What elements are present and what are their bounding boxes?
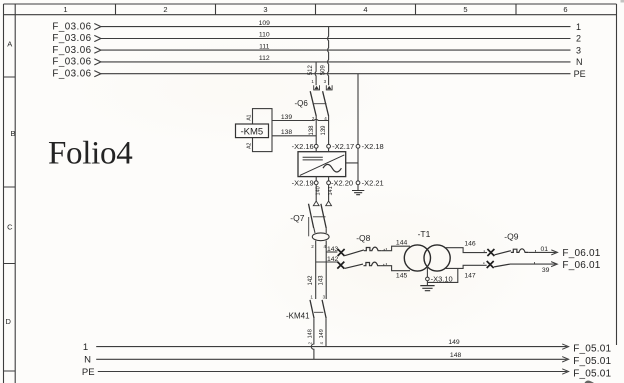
svg-text:148: 148 — [307, 329, 313, 338]
arrow to F_05.01 line PE — [562, 369, 568, 374]
wire 143 horizontal — [326, 251, 337, 253]
wire stub box to X2.20 — [328, 177, 330, 181]
svg-text:3: 3 — [263, 5, 267, 14]
frame ruler row bottom line — [4, 14, 617, 16]
arrow to F_05.01 line N — [562, 357, 568, 362]
svg-text:A: A — [7, 40, 12, 49]
svg-text:F_05.01: F_05.01 — [573, 356, 611, 367]
ground symbol under X2.21 — [352, 191, 364, 195]
svg-text:F_05.01: F_05.01 — [573, 368, 611, 379]
trip unit ellipse Q7 — [312, 233, 329, 241]
thermal element Q8 pole 2 — [364, 262, 381, 266]
terminal X2.21 — [356, 181, 360, 185]
terminal X2.20 — [327, 181, 331, 185]
wire 01 Q9 to arrow — [528, 251, 556, 253]
arrow to F_05.01 line 1 — [562, 344, 568, 349]
breaker contact cross Q8 pole1 — [338, 249, 345, 256]
svg-text:-X2.19: -X2.19 — [292, 178, 314, 187]
pin 1 T1 — [385, 248, 387, 250]
svg-text:C: C — [7, 223, 13, 232]
svg-text:-Q9: -Q9 — [504, 231, 518, 241]
wire X3.10 to ground — [426, 281, 428, 286]
svg-text:2: 2 — [576, 34, 581, 44]
svg-text:6: 6 — [563, 5, 567, 14]
svg-text:509: 509 — [320, 65, 326, 76]
terminal X2.17 — [327, 144, 331, 148]
pin tick Q8 pole2 right — [383, 264, 385, 266]
frame letter column line — [14, 4, 16, 383]
svg-text:149: 149 — [448, 339, 460, 346]
svg-text:01: 01 — [541, 246, 549, 253]
wire X2.21 stub — [357, 163, 359, 181]
svg-text:N: N — [576, 57, 583, 67]
wire 138 horizontal KM5 A2 to Q6 pole1 — [272, 135, 316, 137]
svg-text:143: 143 — [319, 275, 325, 286]
pin 2 Q9 — [534, 262, 536, 264]
wire PE drop to X2.18 — [357, 74, 359, 145]
pin tick Q9 pole1 left — [483, 250, 485, 252]
wire 148 below KM41 — [311, 318, 314, 359]
pin 2 T1 — [385, 263, 387, 265]
node label 1 right — [574, 22, 586, 79]
svg-text:139: 139 — [281, 114, 293, 121]
wire number 109 — [259, 20, 271, 62]
svg-text:141: 141 — [328, 186, 334, 195]
breaker Q6 blade pole 2 — [323, 91, 329, 116]
thermal element Q9 — [511, 249, 528, 253]
svg-text:140: 140 — [316, 186, 322, 195]
svg-text:1: 1 — [63, 5, 67, 14]
wire Q7 pole2 to trip ellipse — [325, 228, 327, 233]
ground symbol under X3.10 — [420, 286, 434, 291]
wire 147 tap to X3.10 — [427, 268, 457, 282]
svg-text:142: 142 — [327, 256, 339, 263]
wire 39 Q9 to arrow — [510, 263, 556, 265]
svg-text:-X2.18: -X2.18 — [362, 142, 384, 151]
breaker Q8 blade pole 2 — [345, 264, 363, 268]
wire Q7 pole1 to trip ellipse — [314, 228, 315, 233]
svg-text:-KM41: -KM41 — [286, 311, 310, 320]
svg-text:F_06.01: F_06.01 — [562, 260, 600, 271]
terminal X2.18 — [356, 144, 360, 148]
svg-text:110: 110 — [259, 32, 270, 39]
wire stub X2.17 to box — [328, 148, 330, 152]
wire bus line 1 — [101, 26, 571, 28]
svg-text:-T1: -T1 — [418, 229, 431, 239]
wire bus bottom 1 — [96, 346, 567, 348]
contactor KM41 blade pole 2 — [322, 300, 326, 318]
wire bus line PE — [101, 73, 571, 75]
wire 141 below X2.20 — [328, 185, 330, 201]
wire 509 drop from line 1 — [328, 27, 329, 86]
svg-text:149: 149 — [319, 329, 325, 338]
svg-text:145: 145 — [396, 272, 408, 279]
svg-text:143: 143 — [327, 246, 339, 253]
terminal X2.19 — [314, 181, 318, 185]
pin 7 Q9 — [535, 250, 537, 252]
wire 142 vertical below Q7 — [315, 241, 317, 299]
node chevron line N source — [94, 59, 101, 65]
svg-text:F_03.06: F_03.06 — [52, 21, 91, 32]
wire stub box to X2.19 — [315, 177, 317, 181]
ruler row ticks — [4, 77, 16, 371]
svg-text:D: D — [5, 317, 11, 326]
svg-text:-KM5: -KM5 — [240, 127, 263, 138]
svg-text:-X2.16: -X2.16 — [292, 142, 314, 151]
svg-text:-X3.10: -X3.10 — [431, 275, 453, 284]
svg-text:144: 144 — [396, 240, 408, 247]
svg-text:-X2.21: -X2.21 — [362, 178, 384, 187]
wire 146 T1 to Q9 — [445, 248, 487, 253]
wire 140 below X2.19 — [315, 185, 317, 201]
contactor KM41 mechanical link — [314, 311, 323, 313]
svg-text:138: 138 — [281, 129, 293, 136]
wire X2.21 to ground — [357, 185, 359, 191]
svg-text:F_06.01: F_06.01 — [562, 248, 600, 259]
pin tick Q8 pole1 right — [383, 249, 385, 251]
svg-text:-Q8: -Q8 — [356, 233, 370, 243]
svg-text:512: 512 — [308, 65, 314, 76]
ruler row letters — [5, 40, 15, 327]
wire X2.18 to converter right side — [346, 148, 358, 163]
wire 512 drop from line N — [315, 62, 316, 85]
wire stub X2.16 to box — [315, 148, 317, 152]
svg-text:1: 1 — [576, 22, 581, 32]
scan artifact corner top right — [621, 0, 624, 3]
breaker contact cross Q8 pole2 — [337, 262, 344, 269]
node chevron line 2 source — [94, 35, 101, 41]
breaker contact cross Q9 pole1 — [487, 249, 494, 256]
wire 139 horizontal KM5 A1 to Q6 pole2 — [272, 119, 329, 120]
wire 144 Q8 to T1 — [381, 246, 410, 251]
svg-text:3: 3 — [576, 45, 581, 55]
breaker Q9 blade pole 1 — [495, 251, 511, 255]
svg-text:2: 2 — [163, 5, 167, 14]
scan artifact blob bottom right — [585, 380, 595, 383]
svg-text:112: 112 — [259, 55, 270, 62]
transformer T1 secondary winding — [424, 245, 450, 271]
connector symbol Q7 pole 2 — [326, 201, 332, 206]
wire 145 Q8 to T1 — [381, 266, 410, 271]
connector symbol Q6 pole 2 — [326, 85, 332, 90]
svg-text:1: 1 — [83, 342, 88, 353]
terminal X2.16 — [314, 144, 318, 148]
device tag box KM5 — [236, 124, 269, 138]
breaker Q7 blade pole 2 — [321, 204, 326, 228]
svg-text:5: 5 — [463, 5, 467, 14]
wire bus bottom PE — [98, 371, 567, 373]
svg-text:147: 147 — [464, 273, 476, 280]
svg-text:F_03.06: F_03.06 — [52, 57, 91, 68]
breaker Q7 linkage bracket — [308, 217, 310, 236]
wire 138 vertical Q6 pole1 to X2.16 — [315, 116, 317, 144]
net label F_03.06 line 1 — [52, 21, 91, 79]
breaker Q6 mechanical link — [313, 103, 327, 105]
svg-text:139: 139 — [321, 125, 327, 136]
node chevron line 1 source — [94, 24, 101, 30]
svg-text:-X2.17: -X2.17 — [332, 142, 354, 151]
svg-text:-Q6: -Q6 — [295, 99, 309, 108]
converter DC symbol — [303, 157, 323, 160]
wire 149 below KM41 — [325, 318, 327, 347]
wire bus bottom N — [96, 358, 567, 360]
svg-text:F_05.01: F_05.01 — [573, 344, 611, 355]
wire 147 T1 to Q9 — [445, 265, 487, 268]
breaker Q8 blade pole 1 — [345, 250, 364, 256]
arrow to F_06.01 bottom — [551, 262, 557, 267]
ruler column numbers — [63, 5, 567, 14]
svg-text:-Q7: -Q7 — [290, 213, 304, 223]
svg-text:PE: PE — [82, 367, 95, 378]
svg-text:-X2.20: -X2.20 — [331, 178, 353, 187]
breaker contact cross Q9 pole2 — [487, 261, 494, 268]
breaker Q7 mechanical link — [313, 216, 326, 218]
connector symbol Q7 pole 1 — [313, 201, 319, 206]
wire bus line 3 — [101, 49, 571, 51]
wire bus line 2 — [101, 38, 571, 40]
transformer T1 primary winding — [404, 245, 430, 271]
breaker Q7 blade pole 1 — [309, 204, 314, 228]
svg-text:138: 138 — [309, 125, 315, 136]
connector symbol Q6 pole 1 — [314, 85, 320, 90]
node chevron line 3 source — [94, 47, 101, 53]
breaker Q6 blade pole 1 — [310, 91, 316, 116]
thermal element Q8 pole 1 — [364, 247, 381, 251]
svg-text:Folio4: Folio4 — [48, 136, 132, 172]
ruler column ticks — [116, 4, 517, 15]
svg-text:PE: PE — [574, 69, 586, 79]
converter AC sine symbol — [323, 164, 341, 172]
svg-text:B: B — [10, 129, 15, 138]
svg-text:F_03.06: F_03.06 — [52, 45, 91, 56]
svg-text:4: 4 — [363, 5, 367, 14]
arrow to F_06.01 top — [551, 250, 557, 255]
wire 143 vertical below Q7 — [325, 241, 327, 299]
breaker Q9 blade pole 2 — [494, 264, 510, 267]
svg-text:109: 109 — [259, 20, 271, 27]
converter box U1 — [298, 152, 346, 177]
svg-text:146: 146 — [464, 240, 476, 247]
node chevron line PE source — [94, 71, 101, 77]
wire 142 horizontal — [316, 261, 337, 263]
wire 139 vertical Q6 pole2 to X2.17 — [328, 116, 330, 144]
svg-text:111: 111 — [259, 43, 270, 50]
svg-text:F_03.06: F_03.06 — [52, 33, 91, 44]
svg-text:A2: A2 — [246, 143, 252, 149]
terminal X3.10 — [426, 277, 430, 281]
converter diagonal — [300, 155, 345, 176]
svg-text:142: 142 — [308, 275, 314, 286]
wire T1 center to X3.10 — [426, 267, 428, 277]
wire bus line N — [101, 61, 571, 63]
svg-text:N: N — [84, 355, 91, 366]
pin tick Q9 pole2 left — [483, 262, 485, 264]
svg-text:F_03.06: F_03.06 — [52, 68, 91, 79]
svg-text:A1: A1 — [246, 114, 252, 120]
coil box KM5 — [253, 109, 273, 152]
svg-text:39: 39 — [542, 267, 550, 274]
svg-text:148: 148 — [450, 352, 462, 359]
contactor KM41 blade pole 1 — [310, 300, 314, 318]
